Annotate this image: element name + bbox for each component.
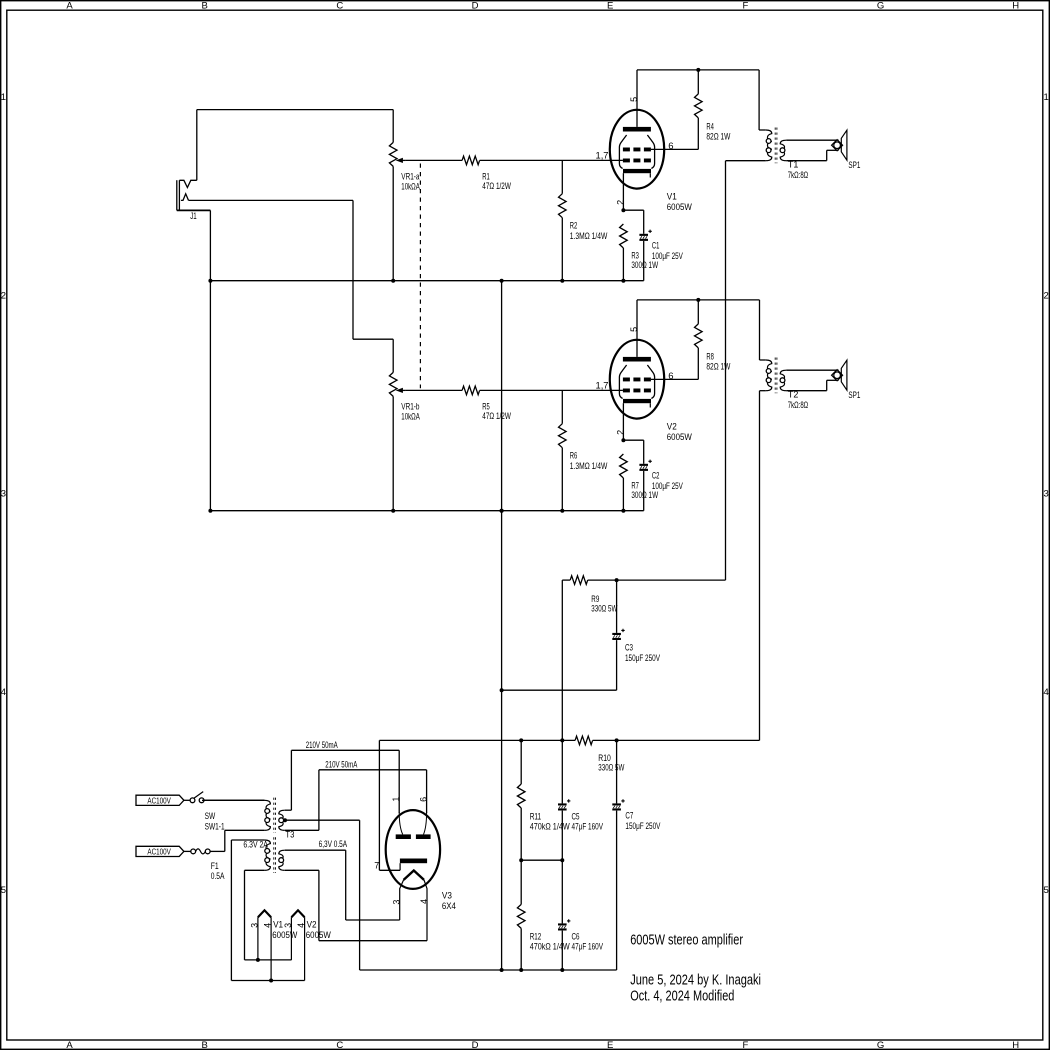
svg-text:3: 3 [1044,489,1049,500]
svg-text:C3: C3 [625,642,633,653]
svg-text:3: 3 [391,900,401,905]
junction dot rail to R4 [696,68,700,72]
wire 6.3V 0.5A winding to V3 heater [285,850,427,941]
wire HV secondary bottom to V3 plate pin 6 [285,770,427,831]
resistor R2 1.3Mohm [559,160,567,280]
svg-text:B: B [201,1,207,12]
junction dots heater bus [256,958,273,983]
svg-text:1,7: 1,7 [596,380,609,391]
svg-text:47μF 160V: 47μF 160V [572,942,604,953]
wire HV center tap to ground [285,820,360,970]
svg-text:V1: V1 [273,920,283,931]
svg-text:470kΩ 1/4W: 470kΩ 1/4W [530,942,570,953]
plate supply rail wire channel 2 [637,300,760,360]
svg-text:7kΩ:8Ω: 7kΩ:8Ω [788,170,808,181]
svg-text:A: A [66,1,73,12]
wire 6.3V 2A winding to output tube heaters [231,840,304,981]
resistor R10 330ohm 5W [575,736,593,745]
svg-text:10kΩA: 10kΩA [401,181,420,192]
svg-text:C1: C1 [652,240,660,251]
svg-text:1,7: 1,7 [596,150,609,161]
svg-text:2: 2 [1044,290,1049,301]
junction dots on channel 2 ground bus [208,509,625,513]
wire R9 left to R10 left [561,580,563,740]
svg-text:C: C [336,1,343,12]
wire R11-R12 junction to C5-C6 junction [521,859,562,861]
svg-text:G: G [877,1040,884,1050]
ground return bus at bottom [360,969,617,971]
svg-text:6005W: 6005W [667,202,692,213]
wire main ground line [501,281,503,970]
svg-text:R6: R6 [570,450,578,461]
svg-text:T2: T2 [788,390,799,401]
ground bus wire channel 2 [210,510,643,512]
svg-text:R2: R2 [570,220,578,231]
resistor R3 300ohm [620,224,628,281]
svg-text:C: C [336,1040,343,1050]
svg-text:470kΩ 1/4W: 470kΩ 1/4W [530,821,570,832]
svg-text:V2: V2 [667,422,677,433]
svg-text:V3: V3 [442,891,452,902]
junction dot HV center tap [283,818,287,822]
svg-text:C2: C2 [652,470,660,481]
svg-text:V2: V2 [307,920,317,931]
svg-text:2: 2 [615,430,625,435]
svg-text:47μF 160V: 47μF 160V [572,821,604,832]
junction dot ground at channel 2 bus [500,509,504,513]
svg-text:5: 5 [1,885,6,896]
svg-text:AC100V: AC100V [147,847,171,857]
capacitor C1 100uF [623,210,651,281]
fuse F1 0.5A [184,830,265,854]
svg-text:0.5A: 0.5A [211,871,225,882]
svg-text:H: H [1012,1040,1019,1050]
svg-text:6005W: 6005W [667,432,692,443]
svg-text:7: 7 [374,861,379,872]
potentiometer VR1-a 10kohm [389,142,405,280]
svg-text:SW1-1: SW1-1 [205,821,225,832]
resistor R11 470kohm [517,740,525,860]
resistor R7 300ohm [620,454,628,511]
svg-text:4: 4 [263,923,273,928]
svg-text:150μF 250V: 150μF 250V [625,653,660,664]
connector J1 stereo input jack [177,180,211,210]
heater of V2 (pins 3,4) [291,910,304,980]
wire J1 sleeve to ground buses [209,210,211,510]
svg-text:6: 6 [668,371,673,382]
junction dots on channel 1 ground bus [208,279,625,283]
svg-text:82Ω 1W: 82Ω 1W [706,362,730,373]
resistor R12 470kohm [517,860,525,970]
svg-text:47Ω 1/2W: 47Ω 1/2W [482,411,511,422]
ground bus wire channel 1 [210,280,643,282]
svg-text:SP1: SP1 [848,390,860,401]
svg-text:5: 5 [629,327,639,332]
svg-text:6: 6 [419,797,429,802]
svg-text:J1: J1 [190,211,197,222]
svg-text:V1: V1 [667,192,677,203]
wire V3 cathode pin 7 to B+ line [379,740,400,870]
junction dot cathode of V2 [621,438,625,442]
svg-text:3: 3 [1,489,6,500]
svg-text:330Ω 5W: 330Ω 5W [598,763,624,774]
wire T2 primary bottom to R10 (B+ channel 2) [759,391,761,741]
capacitor C2 100uF [623,440,651,511]
capacitor C6 47uF 160V [558,860,570,970]
svg-text:82Ω 1W: 82Ω 1W [706,132,730,143]
svg-text:3: 3 [283,923,293,928]
svg-text:2: 2 [1,290,6,301]
wire HV secondary top to V3 plate pin 1 [285,750,399,813]
svg-text:7kΩ:8Ω: 7kΩ:8Ω [788,400,808,411]
svg-text:F: F [742,1,748,12]
svg-text:D: D [472,1,479,12]
svg-text:210V 50mA: 210V 50mA [306,740,338,751]
svg-text:100μF 25V: 100μF 25V [652,481,683,492]
junction dot R9 to C3 [615,578,619,582]
svg-text:1: 1 [1044,92,1049,103]
svg-text:330Ω 5W: 330Ω 5W [591,603,617,614]
svg-text:150μF 250V: 150μF 250V [625,821,660,832]
svg-text:100μF 25V: 100μF 25V [652,251,683,262]
resistor R5 47ohm [406,386,623,395]
tube V2 6005W beam tetrode [610,300,664,440]
svg-text:T1: T1 [788,160,799,171]
svg-text:June 5, 2024 by K. Inagaki: June 5, 2024 by K. Inagaki [630,971,761,988]
resistor R8 82ohm screen [651,300,702,380]
wire J1 ring to VR1-b top [189,200,394,372]
capacitor C5 47uF 160V [558,740,570,860]
svg-text:210V 50mA: 210V 50mA [325,760,357,771]
junction dots divider midpoint [519,858,564,862]
transformer T1 7k:8 output [726,128,839,164]
svg-text:47Ω 1/2W: 47Ω 1/2W [482,181,511,192]
speaker SP1 channel 1 [832,130,847,160]
svg-text:5: 5 [1044,885,1049,896]
capacitor C7 150uF 250V [612,740,624,970]
wire rectifier cathode B+ line [379,739,759,741]
svg-text:10kΩA: 10kΩA [401,411,420,422]
speaker SP1 channel 2 [832,360,847,390]
svg-text:6X4: 6X4 [442,901,456,912]
transformer T3 power [202,798,285,873]
transformer T2 7k:8 output [760,358,839,394]
svg-text:F: F [742,1040,748,1050]
svg-text:B: B [201,1040,207,1050]
svg-text:2: 2 [615,200,625,205]
wire T1 primary bottom to R9 (B+ channel 1) [725,161,727,580]
resistor R4 82ohm screen [651,70,702,149]
dashed gang line VR1-a to VR1-b [419,164,421,389]
svg-text:6005W: 6005W [272,930,297,941]
svg-text:E: E [607,1040,613,1050]
svg-text:AC100V: AC100V [147,796,171,806]
svg-text:SP1: SP1 [848,160,860,171]
svg-text:6005W stereo amplifier: 6005W stereo amplifier [630,932,743,949]
svg-text:6,3V 0.5A: 6,3V 0.5A [319,839,348,850]
switch SW SW1-1 [184,792,265,803]
svg-text:T3: T3 [285,830,294,841]
svg-text:4: 4 [1044,687,1049,698]
plate supply rail wire channel 1 [637,70,759,130]
svg-text:Oct. 4, 2024 Modified: Oct. 4, 2024 Modified [630,988,734,1005]
net flag AC100V line [136,795,184,805]
junction dot rail to R8 [696,298,700,302]
svg-text:4: 4 [419,899,429,904]
heater of V1 (pins 3,4) [258,910,271,980]
wire J1 tip to VR1-a top [197,110,393,181]
capacitor C3 150uF 250V [502,580,625,690]
svg-text:1.3MΩ 1/4W: 1.3MΩ 1/4W [570,461,608,472]
svg-text:1: 1 [1,92,6,103]
svg-text:D: D [472,1040,479,1050]
resistor R1 47ohm [406,156,623,165]
svg-text:4: 4 [296,923,306,928]
junction dot cathode of V1 [621,208,625,212]
svg-text:5: 5 [629,97,639,102]
tube V1 6005W beam tetrode [610,70,664,210]
svg-text:4: 4 [1,687,6,698]
net flag AC100V neutral [136,846,184,856]
svg-text:6: 6 [668,141,673,152]
svg-text:G: G [877,1,884,12]
junction dots on bottom ground bus [500,968,565,972]
svg-text:1.3MΩ 1/4W: 1.3MΩ 1/4W [570,231,608,242]
potentiometer VR1-b 10kohm [389,372,405,510]
svg-text:A: A [66,1040,73,1050]
svg-text:E: E [607,1,613,12]
resistor R6 1.3Mohm [559,390,567,510]
junction dots on B+ line [519,738,618,742]
svg-text:1: 1 [391,797,401,802]
svg-text:6005W: 6005W [306,930,331,941]
tube V3 6X4 rectifier [386,810,440,941]
svg-text:6.3V 2A: 6.3V 2A [243,839,268,850]
junction dot C3 return to ground line [500,688,504,692]
resistor R9 330ohm 5W [562,576,725,585]
svg-text:H: H [1012,1,1019,12]
svg-text:3: 3 [249,923,259,928]
